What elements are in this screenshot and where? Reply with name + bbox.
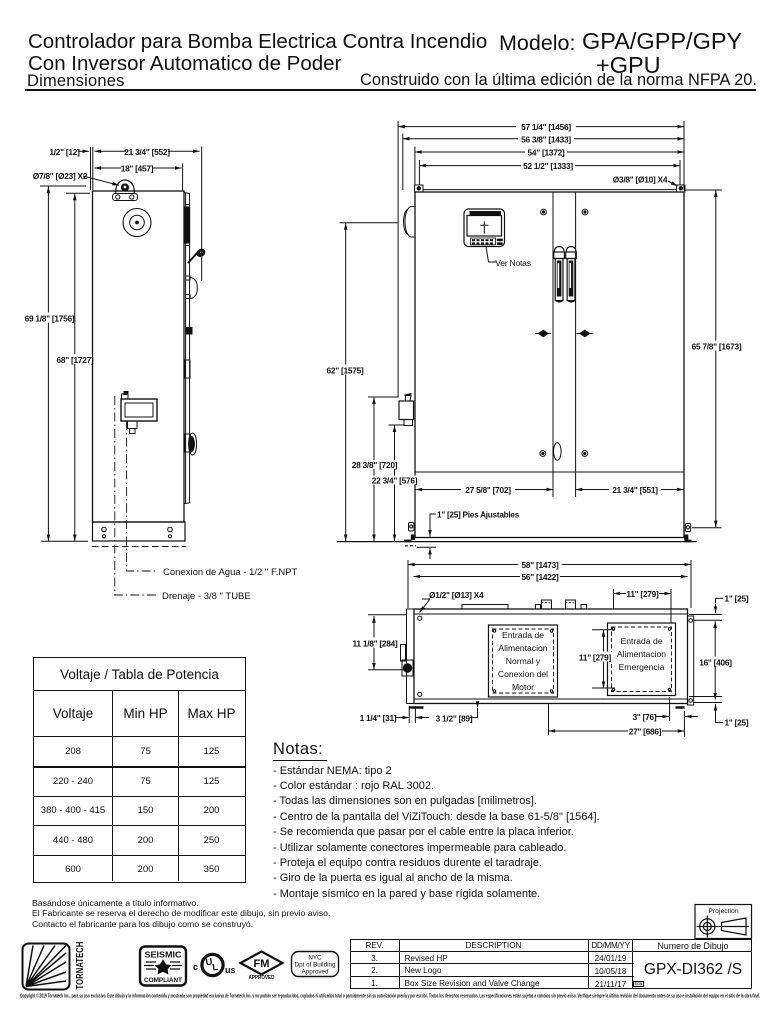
ViZiTouch display xyxy=(464,209,505,247)
svg-text:58" [1473]: 58" [1473] xyxy=(522,560,559,570)
front foot right xyxy=(685,524,690,532)
svg-text:Emergencia: Emergencia xyxy=(619,662,665,672)
NYC badge xyxy=(292,952,339,977)
dim 1 bottom right xyxy=(716,713,724,723)
svg-text:27 5/8" [702]: 27 5/8" [702] xyxy=(465,485,511,495)
svg-text:22 3/4" [576]: 22 3/4" [576] xyxy=(372,476,418,486)
projection box xyxy=(695,905,752,939)
dim 28 3/8 vertical xyxy=(373,397,375,541)
emergency entry box xyxy=(608,623,676,696)
title line 1 xyxy=(28,30,487,54)
row 600 xyxy=(34,855,112,884)
right corner mounting plate xyxy=(677,185,685,192)
dash-dot leader water xyxy=(127,421,158,571)
svg-text:1" [25]: 1" [25] xyxy=(725,594,749,604)
model label xyxy=(499,31,576,56)
label 11 1/8 xyxy=(354,638,396,648)
notas heading xyxy=(273,740,327,761)
copyright tiny print xyxy=(20,993,760,1000)
svg-text:Ø3/8" [Ø10] X4: Ø3/8" [Ø10] X4 xyxy=(613,175,668,185)
dim 11 mid vertical xyxy=(603,630,605,688)
doors bottom edge xyxy=(416,471,684,473)
leader dia 7/8 xyxy=(83,176,119,185)
dashed floor line under plate xyxy=(92,546,186,548)
ext lines top right xyxy=(683,121,685,190)
svg-text:1/2" [12]: 1/2" [12] xyxy=(49,147,80,157)
disclaimer lines xyxy=(32,898,330,929)
row 208 xyxy=(34,737,112,766)
rev col divider xyxy=(399,940,400,988)
label dia 7/8 xyxy=(38,171,82,180)
seismic badge xyxy=(140,947,186,986)
dim 69 1/8 vertical xyxy=(47,187,49,542)
door latch diamond left xyxy=(535,333,551,335)
top edge second line xyxy=(423,189,677,191)
left door edge xyxy=(552,193,554,473)
dim 54 xyxy=(415,151,684,153)
leader ver notas xyxy=(486,247,496,263)
svg-text:56 3/8" [1433]: 56 3/8" [1433] xyxy=(521,134,571,144)
lower door bolt left xyxy=(540,451,546,457)
leader dia 3/8 xyxy=(668,181,678,186)
dim 16 vertical xyxy=(714,621,716,699)
label 27 xyxy=(628,727,662,736)
top door bolt left xyxy=(541,209,547,215)
dim 68 vertical xyxy=(74,194,76,541)
bottom view box xyxy=(414,609,688,704)
leader dia 1/2 xyxy=(420,599,431,613)
svg-text:65 7/8" [1673]: 65 7/8" [1673] xyxy=(692,342,742,352)
subtitle Dimensiones xyxy=(27,72,125,91)
FM diamond xyxy=(241,952,283,975)
svg-text:68" [1727]: 68" [1727] xyxy=(57,355,94,365)
svg-text:27" [686]: 27" [686] xyxy=(629,727,662,737)
rev rows xyxy=(351,954,399,963)
dim 18 line xyxy=(95,167,182,169)
date col divider xyxy=(632,940,633,988)
svg-text:69 1/8" [1756]: 69 1/8" [1756] xyxy=(25,314,75,324)
wall mounting flange xyxy=(90,147,92,190)
side cabinet body xyxy=(93,191,185,522)
dim 1 top right xyxy=(716,598,724,603)
label 52 1/2 xyxy=(521,161,575,170)
dim 57 1/4 xyxy=(398,126,684,128)
svg-text:Alimentacion: Alimentacion xyxy=(617,649,666,659)
latch handle right xyxy=(566,246,575,252)
label 21 3/4 xyxy=(126,147,168,156)
lifting eye xyxy=(116,180,134,194)
label 68 xyxy=(58,354,92,364)
header underline xyxy=(351,951,751,952)
ground line xyxy=(337,541,697,543)
dim 27 5/8 xyxy=(416,489,554,491)
model number xyxy=(582,28,742,55)
hinge bar on door edge xyxy=(185,207,190,243)
latch loop xyxy=(190,278,198,299)
dim 58 xyxy=(408,564,691,566)
mid plate on door edge xyxy=(185,360,190,378)
lower door bolt right xyxy=(582,451,588,457)
label 58 xyxy=(518,560,562,569)
ext line right of 18 xyxy=(182,164,184,192)
dim 1 1/4 and 3 1/2 xyxy=(408,706,410,723)
svg-text:56" [1422]: 56" [1422] xyxy=(522,572,559,582)
header labels xyxy=(34,691,112,737)
svg-text:Entrada de: Entrada de xyxy=(620,636,662,646)
model number line 2 xyxy=(596,52,661,79)
dim 3 bottom xyxy=(656,716,669,718)
label 11 mid xyxy=(578,652,612,662)
ecn stamp xyxy=(633,981,644,987)
row dividers xyxy=(34,766,245,767)
label 27 5/8 xyxy=(461,485,515,494)
svg-text:3 1/2" [89]: 3 1/2" [89] xyxy=(436,714,473,724)
svg-text:54" [1372]: 54" [1372] xyxy=(528,148,565,158)
row line 1 xyxy=(351,963,634,964)
svg-text:NYC: NYC xyxy=(308,955,322,962)
label 56 3/8 xyxy=(518,134,574,143)
voltage table xyxy=(33,657,246,883)
svg-text:Copyright © 2019 Tornatech Inc: Copyright © 2019 Tornatech Inc., para su… xyxy=(20,993,760,1000)
svg-text:18" [457]: 18" [457] xyxy=(121,164,154,174)
label dia 3/8 xyxy=(612,175,668,184)
left flange xyxy=(407,609,415,704)
dim 1 1/4 label line xyxy=(395,717,406,719)
label 22 3/4 xyxy=(373,476,416,485)
svg-text:1 1/4" [31]: 1 1/4" [31] xyxy=(360,713,397,723)
lock cylinder xyxy=(185,434,190,452)
dim 21 3/4 bottom xyxy=(576,489,684,491)
ext lines top left xyxy=(397,121,399,397)
dash-dot leader drain xyxy=(115,396,158,595)
svg-text:us: us xyxy=(225,965,236,975)
svg-text:c: c xyxy=(193,962,198,972)
table header row xyxy=(34,691,245,737)
label 21 3/4 bottom xyxy=(609,485,661,494)
label 69 1/8 xyxy=(27,313,72,323)
svg-text:1" [25] Pies Ajustables: 1" [25] Pies Ajustables xyxy=(437,511,520,520)
svg-text:APPROVED: APPROVED xyxy=(249,975,275,981)
dim 52 1/2 xyxy=(419,165,680,167)
water connection box xyxy=(121,399,157,421)
svg-text:62" [1575]: 62" [1575] xyxy=(327,366,364,376)
svg-text:11 1/8" [284]: 11 1/8" [284] xyxy=(353,639,398,649)
right flange xyxy=(688,616,694,705)
dim 56 3/8 xyxy=(403,138,684,140)
header rule xyxy=(25,89,756,91)
svg-text:57 1/4" [1456]: 57 1/4" [1456] xyxy=(521,122,571,132)
svg-text:11" [279]: 11" [279] xyxy=(579,653,612,663)
dim 11 top xyxy=(614,593,672,595)
isolating switch handle xyxy=(399,401,414,420)
label 56 xyxy=(520,572,560,581)
svg-text:Ø1/2" [Ø13] X4: Ø1/2" [Ø13] X4 xyxy=(429,590,484,600)
side ground tick xyxy=(41,540,88,542)
svg-text:Conexion del: Conexion del xyxy=(498,669,548,679)
svg-text:Dpt of Building: Dpt of Building xyxy=(295,962,336,969)
label 28 3/8 xyxy=(353,460,396,469)
svg-text:11" [279]: 11" [279] xyxy=(626,589,659,599)
dim 56 xyxy=(414,576,688,578)
top edge details xyxy=(462,605,508,610)
front foot left xyxy=(409,523,415,532)
svg-text:Entrada de: Entrada de xyxy=(502,630,544,640)
svg-text:3" [76]: 3" [76] xyxy=(633,712,657,722)
svg-text:21 3/4" [551]: 21 3/4" [551] xyxy=(612,485,658,495)
notas list xyxy=(273,764,600,903)
door latch diamond right xyxy=(577,333,593,335)
cable clamp on flange xyxy=(401,645,406,662)
dim 65 7/8 vertical xyxy=(715,190,717,527)
drawing number xyxy=(634,961,753,979)
dim 1/2 inch leader xyxy=(78,150,89,152)
corner screws xyxy=(418,616,422,620)
row 220-240 xyxy=(34,767,112,796)
bell (side) xyxy=(123,209,151,237)
lock oval on left door edge xyxy=(554,443,562,460)
svg-text:COMPLIANT: COMPLIANT xyxy=(144,977,182,984)
svg-text:28 3/8" [720]: 28 3/8" [720] xyxy=(352,460,398,470)
foot marks bottom xyxy=(409,706,685,709)
svg-text:TORNATECH: TORNATECH xyxy=(74,942,86,990)
tick for 65 7/8 bottom xyxy=(692,527,722,529)
NFPA note xyxy=(360,71,757,90)
svg-text:Approved: Approved xyxy=(302,969,329,976)
top door bolt right xyxy=(582,209,588,215)
small bolt on door edge xyxy=(186,328,192,335)
tornatech logo box xyxy=(23,944,70,990)
row 380-400-415 xyxy=(34,796,112,825)
motor entry box xyxy=(489,625,558,697)
footer logos svg xyxy=(0,900,768,1024)
title line 2 xyxy=(28,52,341,76)
svg-text:1" [25]: 1" [25] xyxy=(725,718,749,728)
svg-text:Motor: Motor xyxy=(512,682,534,692)
label 62 xyxy=(324,365,366,375)
dim 21 3/4 line xyxy=(95,150,200,152)
base plate xyxy=(93,522,186,541)
label 11 top xyxy=(626,589,659,598)
label 1/2 xyxy=(52,147,77,156)
ext line right of 21 3/4 xyxy=(201,147,203,282)
latch handle left xyxy=(555,246,564,252)
svg-text:21 3/4" [552]: 21 3/4" [552] xyxy=(124,147,170,157)
dim 22 3/4 vertical xyxy=(394,425,396,541)
label 16 xyxy=(700,657,732,667)
right door edge xyxy=(575,193,577,473)
label 65 7/8 xyxy=(693,341,740,351)
dim 11 1/8 left xyxy=(373,616,375,670)
svg-text:Alimentacion: Alimentacion xyxy=(498,643,547,653)
label 54 xyxy=(525,148,567,157)
svg-text:Ø7/8" [Ø23] X2: Ø7/8" [Ø23] X2 xyxy=(33,171,88,181)
label 57 1/4 xyxy=(516,122,576,131)
left corner mounting plate xyxy=(415,185,423,192)
door edge strip xyxy=(185,193,187,505)
leader pies ajustables xyxy=(430,514,436,531)
header labels xyxy=(351,941,399,950)
tornatech rays xyxy=(26,946,66,987)
desc col divider xyxy=(588,940,589,988)
dim 27 bottom xyxy=(549,730,685,732)
svg-text:Drenaje - 3/8 " TUBE: Drenaje - 3/8 " TUBE xyxy=(162,591,251,602)
svg-text:52 1/2" [1333]: 52 1/2" [1333] xyxy=(523,161,573,171)
door handle xyxy=(188,252,198,263)
svg-text:16" [406]: 16" [406] xyxy=(699,658,732,668)
bell protrusion on left edge xyxy=(405,207,415,238)
svg-text:Projection: Projection xyxy=(708,908,738,915)
row 440-480 xyxy=(34,826,112,855)
revision table xyxy=(350,939,752,989)
column dividers xyxy=(112,691,113,881)
front cabinet body xyxy=(415,192,684,538)
svg-text:L: L xyxy=(212,962,219,974)
table title xyxy=(34,658,245,691)
svg-text:Normal y: Normal y xyxy=(506,656,541,666)
row line 2 xyxy=(351,976,634,977)
svg-text:Conexion de Agua - 1/2 " F.NPT: Conexion de Agua - 1/2 " F.NPT xyxy=(163,567,298,578)
label 18 xyxy=(121,163,153,172)
svg-text:Ver Notas: Ver Notas xyxy=(495,258,531,268)
dim 62 vertical xyxy=(345,223,347,541)
svg-text:FM: FM xyxy=(254,958,270,970)
